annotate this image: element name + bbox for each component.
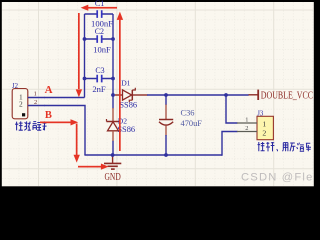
svg-text:C1: C1 <box>95 0 104 8</box>
wire left column up to C1 <box>84 14 86 98</box>
J3 pin 2 <box>237 125 257 132</box>
node label B <box>45 110 52 121</box>
label C3 <box>95 66 104 75</box>
svg-text:10nF: 10nF <box>93 45 111 55</box>
capacitor C3 <box>85 75 114 83</box>
annotation arrow B right <box>40 119 78 125</box>
capacitor C1 <box>85 10 114 18</box>
J2 pin 2 <box>28 99 45 106</box>
label J3 <box>257 110 264 117</box>
diode D2 <box>107 95 120 155</box>
value SS86 (D2) <box>117 125 135 134</box>
wire riser J3 pin2 to ground rail <box>222 132 238 156</box>
J2 pin 1 <box>28 91 45 98</box>
diode D1 <box>115 88 148 102</box>
label D2 <box>118 117 127 126</box>
ground symbol GND <box>104 155 121 169</box>
junction dot at J3 riser <box>224 93 228 97</box>
svg-text:C3: C3 <box>95 66 104 75</box>
wire right column <box>112 14 114 95</box>
svg-text:2: 2 <box>19 99 23 108</box>
J3 pin 1 <box>237 117 257 124</box>
annotation arrow left down to A <box>76 13 82 97</box>
comment 排针，用于测压 <box>258 142 312 151</box>
svg-text:J2: J2 <box>12 83 19 90</box>
svg-text:2: 2 <box>245 125 248 132</box>
annotation arrow right up <box>117 12 123 151</box>
power port DOUBLE_VCC <box>249 89 313 100</box>
junction dot C3 left <box>83 77 87 81</box>
svg-text:D1: D1 <box>121 79 130 88</box>
svg-text:SS86: SS86 <box>119 101 137 110</box>
sheet background <box>0 0 316 192</box>
junction dot GND <box>111 153 115 157</box>
value SS86 (D1) <box>119 101 137 110</box>
junction dot C36 bottom <box>164 153 168 157</box>
wire D1 cathode to power port <box>147 94 249 96</box>
comment 接线端子 <box>15 121 46 130</box>
junction dot at C36 top <box>164 93 168 97</box>
svg-text:C36: C36 <box>181 109 195 118</box>
svg-text:2: 2 <box>262 128 266 137</box>
svg-text:2nF: 2nF <box>92 84 106 94</box>
node label A <box>45 84 53 96</box>
svg-text:DOUBLE_VCC: DOUBLE_VCC <box>261 89 313 100</box>
svg-text:470uF: 470uF <box>181 119 203 128</box>
watermark CSDN @Fle <box>241 171 314 183</box>
label C36 <box>181 109 195 118</box>
svg-text:A: A <box>45 84 53 96</box>
svg-text:J3: J3 <box>257 110 264 117</box>
svg-text:C2: C2 <box>95 27 104 36</box>
svg-text:B: B <box>45 110 52 121</box>
junction dot C2 right <box>111 37 115 41</box>
capacitor C2 <box>85 35 114 43</box>
annotation arrow into GND <box>78 164 109 170</box>
svg-text:2: 2 <box>34 99 37 106</box>
value 2nF <box>92 84 106 94</box>
label C2 <box>95 27 104 36</box>
connector J2 <box>12 89 28 119</box>
value 10nF <box>93 45 111 55</box>
ground rail wire <box>84 154 222 156</box>
svg-text:1: 1 <box>262 120 266 129</box>
annotation arrow top (current flow left) <box>81 5 117 11</box>
junction dot C2 left <box>83 37 87 41</box>
svg-text:1: 1 <box>34 91 37 98</box>
label GND <box>105 171 122 182</box>
value 470uF <box>181 119 203 128</box>
annotation arrow B down <box>74 124 80 163</box>
label C1 <box>95 0 104 8</box>
connector J3 <box>257 116 273 139</box>
label J2 <box>12 83 19 90</box>
svg-text:1: 1 <box>245 117 248 124</box>
wire riser to J3 pin1 <box>226 95 238 123</box>
wire B from J2 pin2 down to ground rail <box>44 106 85 156</box>
value 100nF <box>91 18 113 28</box>
junction dot node B top <box>111 93 115 97</box>
capacitor C36 <box>159 95 173 155</box>
junction dot C3 right <box>111 77 115 81</box>
svg-text:GND: GND <box>105 171 122 182</box>
svg-text:CSDN @Fle: CSDN @Fle <box>241 171 314 183</box>
wire A from J2 pin1 to left column <box>44 97 85 99</box>
label D1 <box>121 79 130 88</box>
